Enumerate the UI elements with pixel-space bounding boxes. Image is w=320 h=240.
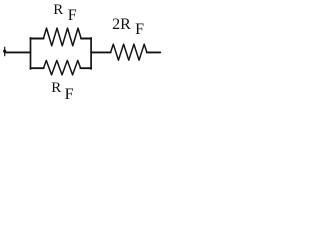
wire top branch stub <box>81 38 91 40</box>
input terminal dot <box>3 50 6 53</box>
wire right bar <box>90 38 92 69</box>
wire top branch lead <box>31 38 44 40</box>
resistor RF top <box>43 28 81 46</box>
label RF bottom: R <box>51 81 61 96</box>
wire bottom branch stub <box>81 67 92 69</box>
label RF top: R <box>53 3 63 18</box>
resistor 2RF <box>111 44 147 60</box>
resistor RF bottom <box>44 60 81 75</box>
wire middle output <box>91 51 111 53</box>
label 2RF right: 2R <box>112 17 131 33</box>
wire left bar <box>30 38 32 69</box>
wire right output <box>147 51 161 53</box>
label RF top: F subscript <box>68 8 77 24</box>
label 2RF right: F subscript <box>135 22 144 38</box>
wire bottom branch lead <box>31 67 44 69</box>
wire input <box>5 51 31 53</box>
input terminal tick <box>4 47 6 56</box>
label RF bottom: F subscript <box>65 87 74 103</box>
